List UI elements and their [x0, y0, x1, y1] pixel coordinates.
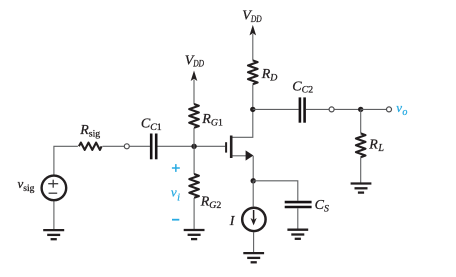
output terminal open circle — [387, 107, 392, 112]
resistor Rsig — [79, 143, 102, 150]
wire source node to current source — [252, 181, 254, 207]
wire CC1 to gate — [158, 145, 226, 147]
wire drain node to CC2 — [253, 108, 299, 110]
MOSFET source lead — [233, 155, 247, 157]
svg-text:CC2: CC2 — [292, 79, 313, 95]
svg-text:vsig: vsig — [18, 176, 35, 194]
svg-text:Rsig: Rsig — [79, 123, 100, 140]
wire terminal to CC1 — [130, 145, 150, 147]
resistor RG2 — [189, 174, 199, 198]
minus sign inside vsig — [49, 192, 58, 194]
wire Rsig to input terminal — [103, 145, 125, 147]
voltage source vsig — [42, 176, 67, 201]
svg-text:vo: vo — [396, 100, 407, 118]
ground below RG2 — [184, 230, 205, 239]
current source I — [242, 208, 265, 231]
wire RL to ground — [360, 157, 362, 183]
wire source node to CS — [253, 181, 298, 201]
label minus (cyan) — [172, 219, 179, 221]
wire current source to ground — [253, 232, 255, 252]
svg-text:RL: RL — [368, 138, 384, 155]
VDD arrow above RG1 — [191, 71, 198, 82]
drain node junction dot — [250, 107, 255, 112]
svg-text:RD: RD — [261, 67, 278, 83]
svg-text:RG2: RG2 — [200, 195, 222, 211]
wire gate node to RG2 — [193, 146, 195, 174]
svg-text:CC1: CC1 — [141, 117, 162, 133]
wire RL node down to RL — [360, 109, 362, 133]
gate node junction dot — [191, 144, 196, 149]
wire vsig bottom to ground — [53, 201, 55, 230]
wire source to source node — [252, 156, 254, 181]
wire RL node to vo terminal — [361, 108, 387, 110]
svg-text:CS: CS — [315, 198, 329, 214]
resistor RL — [356, 133, 366, 157]
wire from vsig top to Rsig — [54, 146, 78, 175]
wire RD to drain node — [252, 84, 254, 109]
source node junction dot — [251, 178, 256, 183]
intermediate open circle — [329, 107, 334, 112]
wire RG1 to gate node — [193, 128, 195, 146]
svg-text:VDD: VDD — [185, 53, 205, 69]
MOSFET source arrowhead — [246, 150, 254, 160]
ground below RL — [351, 184, 372, 193]
ground below CS — [287, 230, 308, 239]
plus sign inside vsig — [48, 180, 58, 188]
RL node junction dot — [358, 107, 363, 112]
wire CC2 to intermediate terminal — [306, 108, 329, 110]
capacitor CS — [285, 202, 312, 207]
MOSFET drain lead — [233, 109, 253, 137]
ground below current source — [243, 253, 264, 262]
label plus (cyan) — [172, 164, 180, 172]
MOSFET Q1 channel bar — [230, 136, 233, 159]
svg-text:RG1: RG1 — [201, 112, 223, 128]
input terminal open circle — [124, 144, 129, 149]
resistor RD — [248, 60, 258, 84]
svg-text:I: I — [229, 214, 236, 229]
svg-text:vi: vi — [171, 185, 180, 204]
wire CS to ground — [297, 208, 299, 229]
wire RG2 to ground — [193, 198, 195, 230]
MOSFET Q1 gate bar — [225, 142, 227, 152]
current source arrow — [253, 210, 255, 223]
capacitor CC2 — [300, 97, 305, 122]
svg-text:VDD: VDD — [242, 9, 262, 25]
wire to RL node — [334, 108, 360, 110]
capacitor CC1 — [151, 134, 156, 160]
resistor RG1 — [189, 104, 199, 128]
VDD arrow above RD — [250, 25, 257, 36]
ground below vsig — [43, 230, 64, 239]
